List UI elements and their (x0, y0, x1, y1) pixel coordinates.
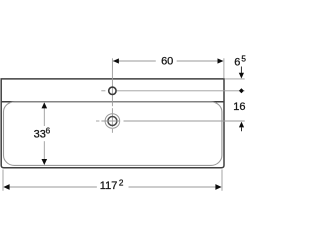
dimension 117.2 right arrow (215, 184, 221, 190)
dimension 16 up arrow (239, 122, 244, 128)
drain outer circle (105, 114, 120, 129)
dimension 117.2 line (9, 186, 216, 188)
washbasin outer outline (1, 79, 224, 168)
basin bowl inner outline (4, 102, 222, 166)
svg-text:5: 5 (241, 54, 246, 63)
bottom extension line right (221, 170, 223, 191)
svg-text:6: 6 (46, 127, 51, 136)
extension line from drain center to right (124, 120, 245, 122)
dimension 16 arrow shaft (241, 127, 243, 131)
dimension 60 left arrow (113, 58, 119, 63)
dimension 6.5 arrow shaft (240, 67, 242, 74)
svg-text:60: 60 (161, 55, 173, 67)
top edge extension line right (225, 78, 245, 80)
dimension 6.5 down arrow (239, 73, 244, 79)
svg-text:2: 2 (119, 179, 124, 188)
faucet hole left center dash (101, 90, 105, 92)
shared diamond marker (239, 88, 244, 93)
faucet hole (109, 87, 116, 94)
svg-text:117: 117 (100, 180, 118, 192)
dimension 33.6 line (43, 103, 45, 164)
svg-text:33: 33 (34, 129, 46, 141)
right edge extension above (223, 58, 225, 78)
svg-text:16: 16 (233, 101, 245, 113)
drain inner circle (108, 117, 117, 126)
deck line (rear shelf edge) (1, 101, 224, 103)
dimension 60 right arrow (218, 58, 224, 63)
dimension 33.6 up arrow (42, 102, 48, 108)
bottom extension line left (2, 170, 4, 191)
drain horizontal center dashes (96, 120, 120, 122)
vertical centerline (111, 58, 113, 133)
dimension 33.6 down arrow (42, 159, 48, 165)
svg-text:6: 6 (234, 56, 240, 68)
extension line from faucet center to right (117, 90, 245, 92)
dimension 117.2 left arrow (3, 184, 9, 190)
dimension 60 line (113, 60, 219, 62)
